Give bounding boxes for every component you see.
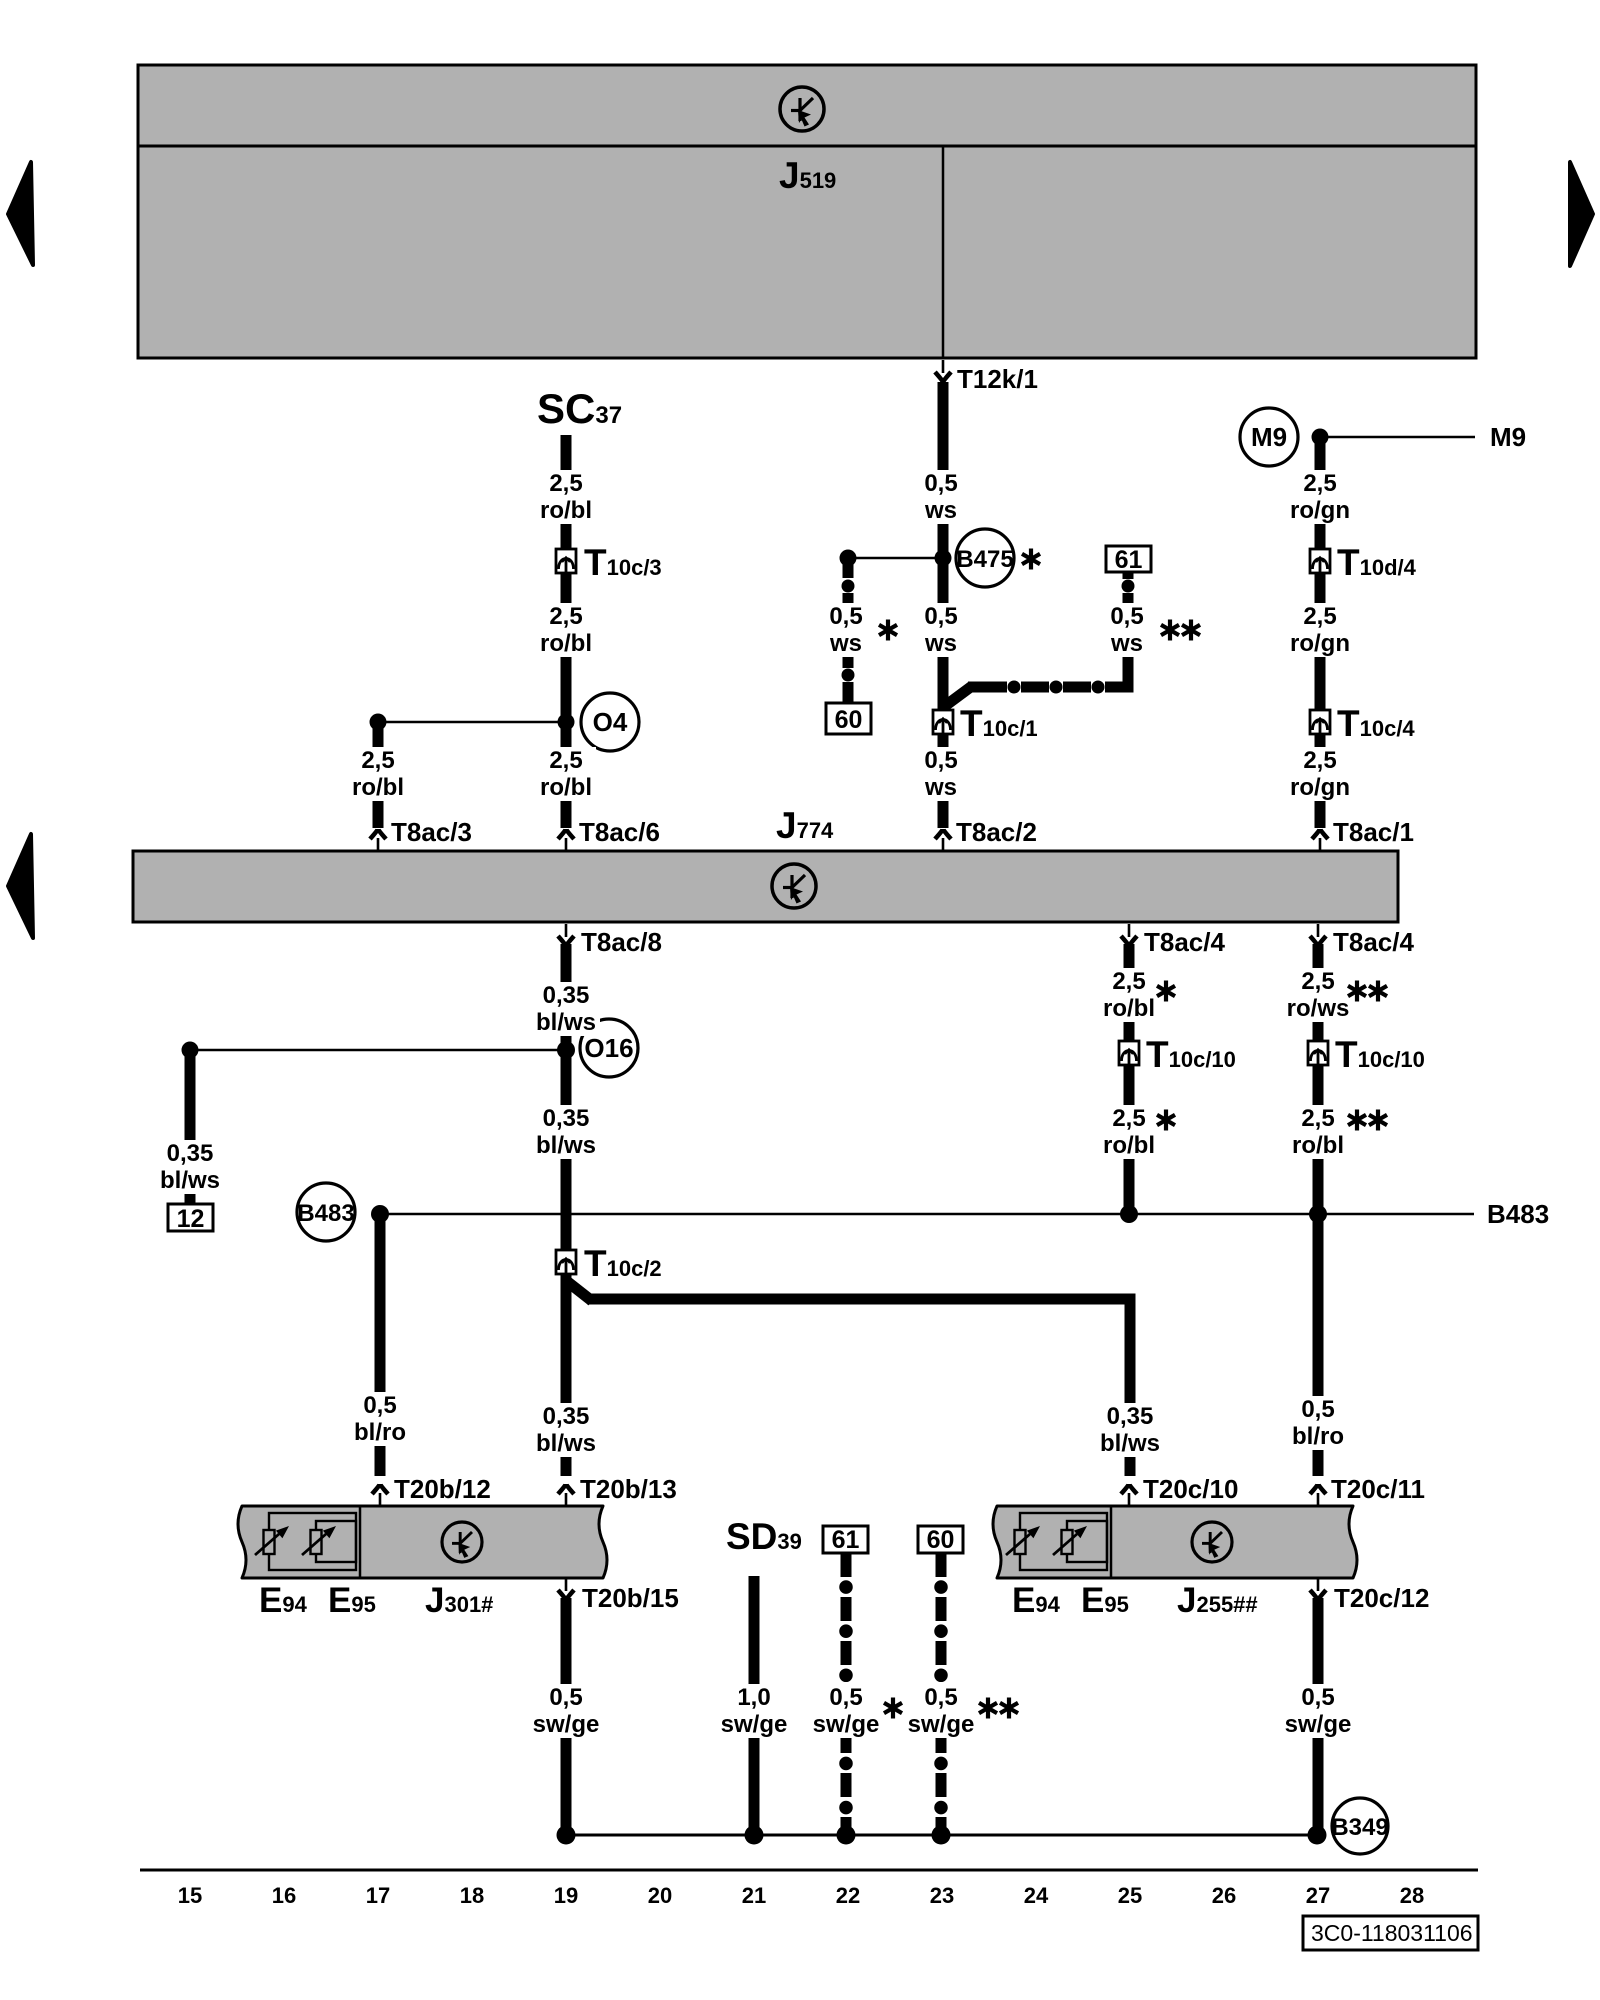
connector T10c/3 on SC37 wire [556,549,576,573]
svg-text:0,5: 0,5 [924,470,957,497]
svg-text:2,5: 2,5 [1112,968,1145,995]
wire label 0,5 bl/ro (above T20c/11) [1288,1396,1348,1450]
node label O4 circle [581,693,639,751]
svg-text:ro/bl: ro/bl [1292,1132,1344,1159]
svg-text:T8ac/4: T8ac/4 [1144,927,1225,957]
pin arrow T20b/15 (J301 bottom) [558,1578,574,1600]
double asterisk for 60 ground wire [979,1698,997,1719]
wire label 0,5 ws (center middle) [916,603,970,657]
svg-text:60: 60 [835,706,863,734]
asterisk below T8ac/4 left [1157,981,1175,1002]
J301 control-unit symbol [442,1522,482,1562]
asterisk above B483 left [1157,1110,1175,1131]
continuation arrow right [1570,162,1593,266]
wire label 2,5 ro/gn (right upper) [1288,470,1352,524]
svg-text:ro/ws: ro/ws [1287,995,1350,1022]
pin arrow T20c/10 [1121,1484,1137,1506]
pin arrow T8ac/3 [370,829,386,851]
J301 compartment divider [359,1506,362,1578]
wire dashed 61 to ground (0,5 sw/ge) [841,1553,852,1835]
svg-text:60: 60 [927,1526,955,1554]
wire label 1,0 sw/ge (SD39) [721,1684,788,1738]
wire ro/bl from T8ac/4 right down to T20c/11 [1313,944,1324,1476]
svg-text:B483: B483 [1487,1199,1549,1229]
pin arrow T8ac/8 (J774 bottom) [558,924,574,946]
J774 control-unit symbol [772,864,816,908]
svg-text:ro/bl: ro/bl [352,774,404,801]
svg-text:2,5: 2,5 [1112,1105,1145,1132]
svg-text:ws: ws [924,630,957,657]
svg-text:T20b/15: T20b/15 [582,1583,679,1613]
continuation arrow left middle [8,834,33,938]
J255 E95 sub-box [1067,1521,1107,1562]
svg-text:T8ac/4: T8ac/4 [1333,927,1414,957]
wire bl/ws from T8ac/8 down to T10c/2 (0,35 bl/ws) [561,944,572,1250]
wire label 0,35 bl/ws (above T20c/10) [1096,1403,1164,1457]
J255 control-unit symbol [1192,1522,1232,1562]
svg-text:sw/ge: sw/ge [721,1711,788,1738]
svg-text:ws: ws [924,774,957,801]
svg-text:ws: ws [829,630,862,657]
svg-text:1,0: 1,0 [737,1684,770,1711]
ground point label B349 circle [1331,1798,1388,1854]
svg-text:ws: ws [1110,630,1143,657]
svg-text:28: 28 [1400,1883,1424,1908]
rheostat E95 (in J255) [1053,1526,1087,1555]
svg-text:15: 15 [178,1883,202,1908]
svg-text:2,5: 2,5 [1303,470,1336,497]
svg-text:sw/ge: sw/ge [813,1711,880,1738]
wire thin link to B475 stub [848,557,943,560]
wire dashed 60 to ground (0,5 sw/ge) [936,1553,947,1835]
J519 internal partition line [942,146,945,358]
node dot terminal-12 branch [182,1042,199,1059]
wire label 0,35 bl/ws (terminal 12 branch) [156,1140,224,1194]
svg-text:61: 61 [1115,546,1143,574]
wire label 0,5 sw/ge (60) [908,1684,975,1738]
svg-text:0,35: 0,35 [543,1105,590,1132]
wire label 2,5 ro/bl (T8ac/3 branch) [348,747,408,801]
svg-text:bl/ws: bl/ws [536,1132,596,1159]
wire left branch down to T8ac/3 (2,5 ro/bl) [373,722,384,828]
junction dot O4 on SC37 wire [558,714,575,731]
svg-text:0,35: 0,35 [543,1403,590,1430]
svg-text:0,35: 0,35 [167,1140,214,1167]
wire SC37 fuse feed (2,5 ro/bl) [561,435,572,828]
junction dot ground x846 [837,1826,856,1845]
J255 E94 sub-box [1020,1513,1107,1570]
junction dot O16 [557,1041,575,1059]
wire label 0,5 ws (61 branch) [1102,603,1154,657]
wire ws from T10c/1 down to T8ac/2 [938,734,949,828]
svg-text:27: 27 [1306,1883,1330,1908]
double asterisk above B483 right [1348,1110,1366,1131]
J255 compartment divider [1110,1506,1113,1578]
control unit J774 box [133,851,1398,922]
svg-text:2,5: 2,5 [1301,1105,1334,1132]
junction dot ground x1317 [1308,1826,1327,1845]
wire sw/ge from T20b/15 to ground (0,5 sw/ge) [561,1598,572,1835]
connector T10c/4 [1310,710,1330,734]
pin arrow T8ac/2 [935,829,951,851]
part number box 3C0-118031106 [1303,1916,1478,1950]
wire bl/ro from B483 down to T20b/12 (0,5 bl/ro) [375,1214,386,1476]
svg-text:bl/ro: bl/ro [1292,1423,1344,1450]
svg-text:20: 20 [648,1883,672,1908]
svg-text:M9: M9 [1251,422,1287,452]
node B475 junction dot on ws wire [935,550,952,567]
svg-text:0,5: 0,5 [1110,603,1143,630]
wire thin link O16 to terminal 12 branch [190,1049,566,1052]
svg-text:T20b/12: T20b/12 [394,1474,491,1504]
svg-text:M9: M9 [1490,422,1526,452]
J301 E95 sub-box [316,1521,356,1562]
svg-text:bl/ws: bl/ws [536,1009,596,1036]
wire label 0,5 sw/ge (T20c/12) [1285,1684,1352,1738]
svg-text:ro/bl: ro/bl [540,497,592,524]
wire thick horizontal run to T20c/10 [587,1294,1135,1305]
svg-text:T20c/12: T20c/12 [1334,1583,1429,1613]
wire label 0,5 sw/ge (T20b/15) [533,1684,600,1738]
svg-text:ro/bl: ro/bl [1103,1132,1155,1159]
control unit J519 box (onboard supply control unit) [138,65,1476,358]
wire thin B483 bus line [380,1213,1474,1216]
wire label 2,5 ro/bl (SC37 lower) [536,747,596,801]
wire label 0,35 bl/ws (above T20b/13) [532,1403,600,1457]
svg-text:sw/ge: sw/ge [533,1711,600,1738]
svg-text:0,35: 0,35 [543,982,590,1009]
svg-text:24: 24 [1024,1883,1049,1908]
svg-text:B483: B483 [297,1200,354,1227]
svg-text:2,5: 2,5 [1303,747,1336,774]
wire label 2,5 ro/gn (right lower) [1288,747,1352,801]
wire label 2,5 ro/bl (above B483 right) [1286,1105,1350,1159]
node M9 junction dot [1312,429,1329,446]
svg-text:T20c/11: T20c/11 [1331,1474,1425,1504]
terminal box 61 (upper) [1106,546,1151,574]
node label M9 circle [1240,408,1298,466]
double asterisk for 61 branch [1161,620,1179,641]
node dot left branch T8ac/3 [370,714,387,731]
svg-text:0,5: 0,5 [924,747,957,774]
control unit J301 box (A/C control unit) [238,1506,607,1578]
pin arrow T8ac/6 [558,829,574,851]
svg-text:B475: B475 [956,546,1013,573]
wire label 2,5 ro/bl (above B483 left) [1099,1105,1159,1159]
svg-text:0,5: 0,5 [829,603,862,630]
connector T10c/2 [556,1250,576,1274]
svg-text:23: 23 [930,1883,954,1908]
wire thin link O4 to left branch [378,721,566,724]
pin T12k/1 arrow at J519 bottom [935,360,951,382]
svg-text:0,5: 0,5 [549,1684,582,1711]
wire label 2,5 ro/ws (below T8ac/4 right) [1286,968,1350,1022]
wire bl/ws down to terminal 12 (0,35 bl/ws) [185,1050,196,1204]
control unit J255 box (Climatronic control unit) [993,1506,1357,1578]
svg-text:26: 26 [1212,1883,1236,1908]
terminal box 60 (lower) [918,1526,963,1554]
junction dot B483 x1129 [1120,1205,1138,1223]
svg-text:bl/ws: bl/ws [1100,1430,1160,1457]
connector T10d/4 [1310,549,1330,573]
terminal box 61 (lower) [823,1526,868,1554]
svg-text:16: 16 [272,1883,296,1908]
wire label 0,35 bl/ws (below T8ac/8) [532,982,600,1036]
svg-text:2,5: 2,5 [1303,603,1336,630]
pin arrow T20b/13 [558,1484,574,1506]
svg-text:2,5: 2,5 [361,747,394,774]
wire thin link to M9 [1320,436,1475,439]
svg-text:0,5: 0,5 [363,1392,396,1419]
svg-text:O4: O4 [593,707,628,737]
wire ws from T12k/1 down to T10c/1 (0,5 ws) [938,382,949,710]
pin arrow T20b/12 [372,1484,388,1506]
svg-text:0,5: 0,5 [829,1684,862,1711]
wire label 0,5 bl/ro (above T20b/12) [350,1392,410,1446]
wire bl/ws down to T20c/10 (0,35 bl/ws) [1125,1294,1136,1477]
svg-text:T8ac/8: T8ac/8 [581,927,662,957]
ground bus line B349 [566,1834,1317,1837]
wire label 2,5 ro/bl (SC37 middle) [536,603,596,657]
wire diagonal joint into T10c/1 [941,686,972,709]
pin arrow T8ac/4 right [1310,924,1326,946]
node label O16 circle [580,1019,638,1077]
svg-text:19: 19 [554,1883,578,1908]
wire label 0,5 ws (center lower) [916,747,970,801]
rheostat E94 (in J255) [1006,1526,1040,1555]
junction dot ground x566 [557,1826,576,1845]
svg-text:bl/ro: bl/ro [354,1419,406,1446]
svg-text:2,5: 2,5 [1301,968,1334,995]
svg-text:0,5: 0,5 [1301,1396,1334,1423]
wire diagonal branch from T10c/2 [564,1279,592,1301]
svg-text:ro/bl: ro/bl [540,774,592,801]
svg-text:ro/bl: ro/bl [540,630,592,657]
junction dot ground x754 [745,1826,764,1845]
node label B483 circle [297,1183,355,1241]
svg-text:22: 22 [836,1883,860,1908]
svg-text:2,5: 2,5 [549,747,582,774]
asterisk after B475 [1022,549,1040,570]
svg-text:sw/ge: sw/ge [1285,1711,1352,1738]
svg-text:bl/ws: bl/ws [536,1430,596,1457]
svg-text:T12k/1: T12k/1 [957,364,1038,394]
asterisk for 61 ground wire [884,1698,902,1719]
pin arrow T8ac/1 [1312,829,1328,851]
wire label 0,5 ws (center upper) [916,470,970,524]
svg-text:2,5: 2,5 [549,470,582,497]
wire ro/bl from T8ac/4 left down to B483 line [1124,944,1135,1216]
terminal box 60 (upper) [826,703,871,734]
junction dot B483 x1318 [1309,1205,1327,1223]
connector T10c/1 [933,710,953,734]
wire SD39 to ground (1,0 sw/ge) [749,1576,760,1835]
svg-text:61: 61 [832,1526,860,1554]
svg-text:B349: B349 [1331,1814,1388,1841]
junction dot ground x941 [932,1826,951,1845]
svg-text:12: 12 [177,1205,205,1233]
rheostat E94 (in J301) [255,1526,289,1555]
svg-text:T8ac/2: T8ac/2 [956,817,1037,847]
svg-text:T8ac/1: T8ac/1 [1333,817,1414,847]
svg-text:0,5: 0,5 [924,1684,957,1711]
J519 control-unit symbol (K in circle) [780,87,824,131]
svg-text:0,35: 0,35 [1107,1403,1154,1430]
svg-text:ro/bl: ro/bl [1103,995,1155,1022]
pin arrow T20c/12 (J255 bottom) [1310,1578,1326,1600]
svg-text:sw/ge: sw/ge [908,1711,975,1738]
bottom scale line [140,1869,1478,1872]
wire sw/ge from T20c/12 to ground (0,5 sw/ge) [1313,1598,1324,1835]
svg-text:21: 21 [742,1883,766,1908]
svg-text:T8ac/3: T8ac/3 [391,817,472,847]
node label B475 circle [956,529,1014,587]
svg-text:0,5: 0,5 [924,603,957,630]
pin arrow T20c/11 [1310,1484,1326,1506]
connector T10c/10 right [1308,1041,1328,1065]
svg-text:T8ac/6: T8ac/6 [579,817,660,847]
svg-text:18: 18 [460,1883,484,1908]
svg-text:ro/gn: ro/gn [1290,497,1350,524]
wire dashed stub down to terminal 60 (0,5 ws) [842,560,855,703]
svg-text:bl/ws: bl/ws [160,1167,220,1194]
svg-text:ws: ws [924,497,957,524]
wire label 2,5 ro/gn (right middle) [1288,603,1352,657]
wire label 2,5 ro/bl (below T8ac/4 left) [1099,968,1159,1022]
svg-text:O16: O16 [584,1033,633,1063]
wire label 0,35 bl/ws (below O16) [532,1105,600,1159]
wire label 0,5 sw/ge (61) [813,1684,880,1738]
rheostat E95 (in J301) [302,1526,336,1555]
wire bl/ws below T10c/2 down to T20b/13 [561,1274,572,1476]
svg-text:ro/gn: ro/gn [1290,774,1350,801]
svg-text:25: 25 [1118,1883,1142,1908]
svg-text:17: 17 [366,1883,390,1908]
wire label 2,5 ro/bl (SC37 upper) [536,470,596,524]
svg-text:T20b/13: T20b/13 [580,1474,677,1504]
J301 E94 sub-box [269,1513,356,1570]
svg-text:T20c/10: T20c/10 [1143,1474,1238,1504]
wire M9 branch (2,5 ro/gn) [1315,437,1326,828]
svg-text:2,5: 2,5 [549,603,582,630]
node dot B483 start [371,1205,389,1223]
svg-text:3C0-118031106: 3C0-118031106 [1311,1920,1473,1946]
wire dashed stub from terminal 61 (upper) [1122,571,1135,692]
continuation arrow left top [8,162,33,265]
asterisk for B475 stub wire [879,620,897,641]
double asterisk below T8ac/4 right [1348,981,1366,1002]
node stub dot left of B475 [840,550,857,567]
wire dashed horizontal run 61-branch to T10c/1 [968,681,1134,694]
svg-text:ro/gn: ro/gn [1290,630,1350,657]
connector T10c/10 left [1119,1041,1139,1065]
wire label 0,5 ws (B475 stub) [822,603,874,657]
pin arrow T8ac/4 left [1121,924,1137,946]
terminal box 12 [168,1204,213,1233]
svg-text:0,5: 0,5 [1301,1684,1334,1711]
